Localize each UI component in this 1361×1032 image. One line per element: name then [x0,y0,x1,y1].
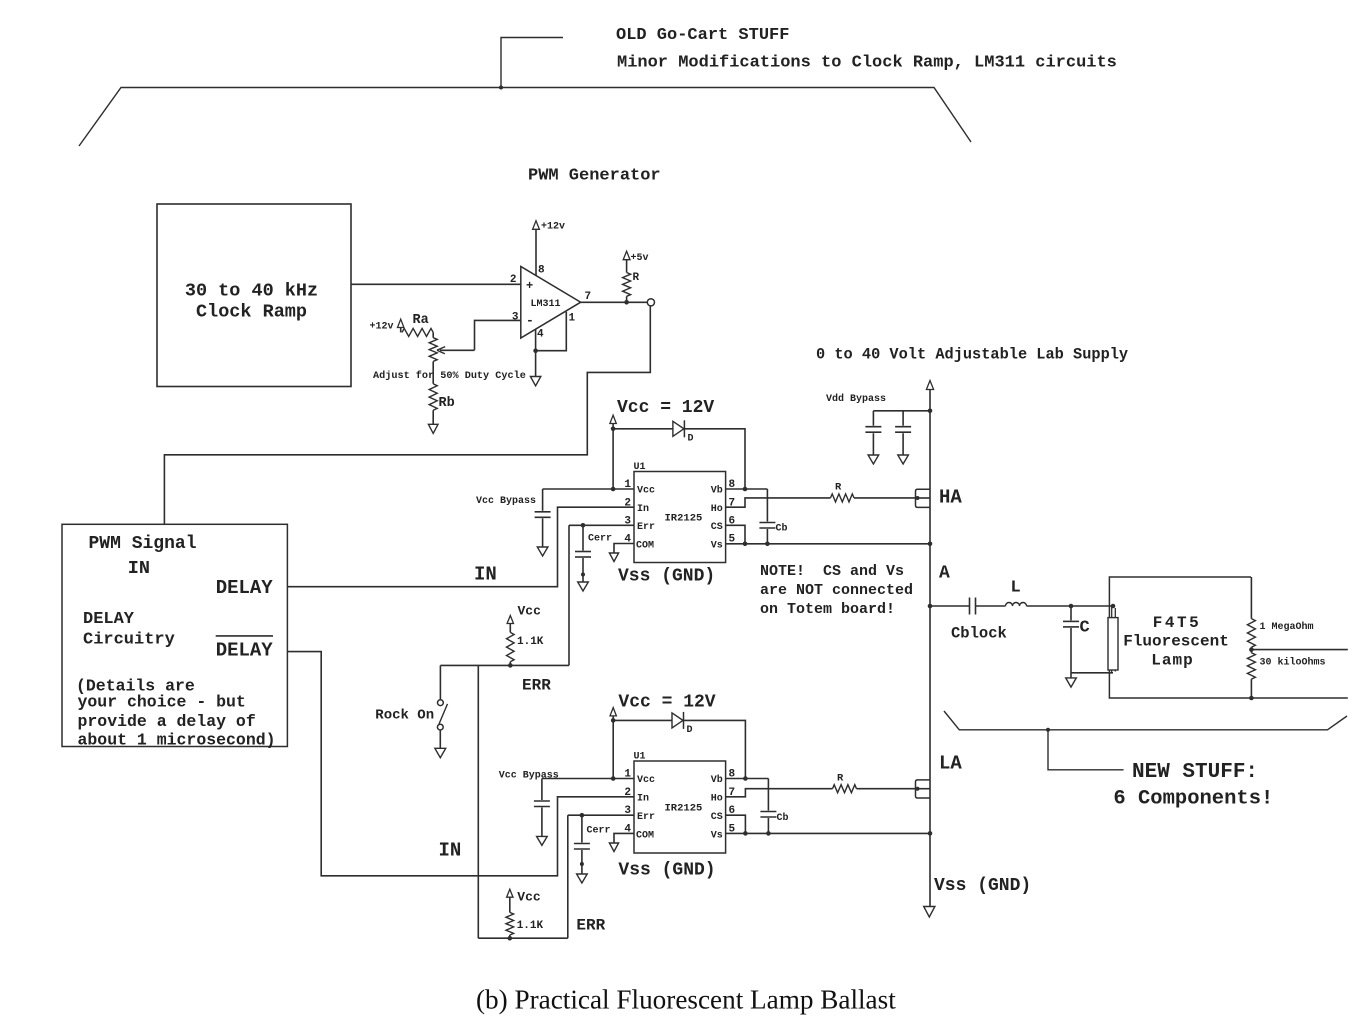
svg-text:Err: Err [637,522,655,533]
svg-text:DELAY: DELAY [216,577,274,599]
wire: Vdd rail [929,390,931,907]
svg-text:Lamp: Lamp [1151,652,1193,670]
inductor L [1006,579,1027,607]
svg-text:HA: HA [939,487,962,509]
svg-text:U1: U1 [634,752,646,763]
capacitor: Vcc bypass (lower) [499,771,559,837]
svg-text:Ho: Ho [711,504,723,515]
svg-text:OLD Go-Cart STUFF: OLD Go-Cart STUFF [616,26,789,45]
svg-text:-: - [526,313,534,328]
svg-text:LA: LA [939,753,962,775]
wire: Vcc rail down to pin 1 [611,429,616,492]
ground (lower Vcc bypass) [537,836,548,845]
svg-text:(b) Practical Fluorescent Lamp: (b) Practical Fluorescent Lamp Ballast [476,985,896,1015]
svg-text:CS: CS [711,522,723,533]
ground (upper COM) [609,553,618,562]
svg-text:+5v: +5v [631,253,649,264]
svg-text:In: In [637,504,649,515]
label: OLD Go-Cart STUFF [616,26,789,45]
switch: Rock On [375,700,447,749]
wire: wiper to LM311 pin 3 [475,320,521,350]
label: 0 to 40 Volt Adjustable Lab Supply [816,346,1128,364]
wire: lower ERR pin down [567,815,569,938]
pin numbers lower IC [624,769,735,836]
svg-text:Rock On: Rock On [375,708,434,724]
svg-text:In: In [637,794,649,805]
svg-text:IN: IN [474,564,497,586]
wire: upper Err pin left and down [568,525,570,665]
wire: LM311 pin 4 down [533,329,538,376]
svg-text:0 to 40 Volt Adjustable Lab Su: 0 to 40 Volt Adjustable Lab Supply [816,346,1128,364]
resistor R (pull-up) [623,260,640,303]
svg-text:2: 2 [624,497,631,509]
wire: Vcc arrow to diode anode (lower) [611,716,672,723]
svg-text:+: + [526,279,533,293]
power symbol +12v (Ra) [370,319,404,332]
wire: gate resistor to HA gate [854,497,916,499]
wire: pin 3 Err [569,523,634,528]
svg-text:Cb: Cb [776,523,788,535]
svg-text:U1: U1 [634,462,646,473]
capacitor: Vdd bypass 1 [865,411,881,455]
wire: Vdd bypass branch [873,409,932,414]
net label: ERR (upper) [522,677,551,695]
svg-text:30 kiloOhms: 30 kiloOhms [1260,657,1326,669]
svg-text:Minor Modifications to Clock R: Minor Modifications to Clock Ramp, LM311… [617,54,1117,73]
ground (Rock On switch) [435,748,446,757]
svg-text:CS: CS [711,812,723,823]
wire: gate resistor to LA gate [857,788,916,790]
svg-text:1 MegaOhm: 1 MegaOhm [1260,621,1314,633]
pin 2 label [510,274,517,286]
ground (Vdd bypass 2) [898,455,909,464]
ground (LM311 pin 4) [530,377,540,386]
diode D (lower bootstrap) [672,712,693,736]
ground (C) [1066,678,1077,687]
wire: lower ERR line [478,937,568,939]
capacitor: Vcc bypass (upper) [476,489,551,547]
wire: lamp bottom rail [1249,696,1348,701]
svg-text:Ho: Ho [711,794,723,805]
wire: pin 8 Vb to bootstrap cap (lower) [726,776,769,781]
svg-text:+12v: +12v [541,222,565,233]
svg-text:7: 7 [585,291,592,303]
pot wiper arrow [437,347,475,354]
svg-text:DELAY: DELAY [216,639,274,661]
net label: IN (upper) [474,564,497,586]
svg-text:Vss (GND): Vss (GND) [934,876,1031,896]
pin label: DELAY output [216,577,274,599]
wire: Cblock to L [976,605,1006,607]
capacitor C [1063,606,1090,678]
svg-text:Err: Err [637,812,655,823]
svg-text:1: 1 [569,313,576,325]
IC U1 IR2125 (lower) [634,752,726,854]
resistor Ra (pot top) [401,313,434,336]
resistor Rb [429,384,455,425]
ground (Vdd bypass 1) [868,455,879,464]
label: Vdd Bypass [826,393,886,405]
resistor 1 MegaOhm [1247,577,1313,650]
svg-text:PWM Signal: PWM Signal [89,534,197,554]
svg-text:IR2125: IR2125 [665,513,703,525]
transistor LA (low-side MOSFET) [916,780,931,798]
svg-text:are NOT connected: are NOT connected [760,582,913,599]
wire: DELAY to upper IR2125 IN (pin 2) [287,507,634,587]
svg-text:Vs: Vs [711,831,723,842]
net label: ERR (lower) [576,917,605,935]
svg-text:6 Components!: 6 Components! [1113,788,1273,811]
annotation bracket: OLD go-cart stuff [79,38,971,147]
ground (rail bottom) [924,907,935,918]
svg-text:1.1K: 1.1K [517,636,544,648]
label: Vss (GND) lower [618,861,715,881]
op-amp U2 LM311 comparator [521,267,581,339]
wire: pin 6 CS jog to Vs (lower) [726,815,746,833]
wire: ERR line to switch [439,665,441,699]
wire: pin 3 Err (lower) [568,813,634,818]
wire: ERR bus vertical joining both drivers [477,665,479,938]
svg-text:provide a delay of: provide a delay of [78,712,256,731]
capacitor Cblock [951,598,1007,643]
block: PWM Signal IN delay circuitry [62,524,287,749]
net label: IN (lower) [439,840,462,862]
ground (Rb) [428,424,438,433]
resistor R (upper gate) [831,482,855,502]
resistor 1.1K (upper) [507,624,544,668]
svg-text:Vcc = 12V: Vcc = 12V [617,398,714,418]
svg-text:L: L [1011,579,1021,598]
svg-text:about 1 microsecond): about 1 microsecond) [78,731,276,750]
ground (lower COM) [609,843,618,852]
wire: PWM output down-left to delay box [164,306,650,524]
svg-text:C: C [1080,619,1090,638]
svg-text:PWM Generator: PWM Generator [528,167,661,186]
svg-text:Cb: Cb [777,812,789,824]
label: PWM Generator [528,167,661,186]
capacitor Cerr (lower) [574,815,611,874]
svg-text:D: D [687,725,693,736]
resistor 30 kiloOhms [1247,650,1325,698]
svg-text:ERR: ERR [522,677,551,695]
wire: pin 5 Vs line to rail [726,542,933,547]
label: Adjust for 50% Duty Cycle [373,370,526,382]
power symbol Vcc (lower 1.1K) [507,889,541,904]
svg-text:Circuitry: Circuitry [83,631,175,650]
resistor R (lower gate) [833,773,857,793]
svg-text:R: R [837,773,844,785]
svg-text:3: 3 [512,312,519,324]
wire: Vcc rail down to pin 1 (lower) [611,720,616,780]
pin 7 label [585,291,592,303]
wire: pin 8 Vb to bootstrap cap [726,487,768,492]
wire: LM311 pin 1 to pin 4 [536,312,567,351]
label: LA [939,753,962,775]
diode D (upper bootstrap) [673,420,694,444]
svg-text:Vcc: Vcc [517,890,541,905]
node A junction [928,564,950,609]
svg-text:IN: IN [439,840,462,862]
svg-text:Vb: Vb [711,485,723,497]
svg-text:IN: IN [128,558,150,579]
svg-text:D: D [688,434,694,445]
svg-text:Vcc: Vcc [518,604,542,619]
svg-text:+12v: +12v [370,322,394,333]
wire: clock ramp to LM311 pin 2 [351,283,521,285]
svg-text:2: 2 [510,274,517,286]
wire: LM311 output pin 7 [581,300,648,305]
resistor: pot lower section [429,332,437,383]
ground (upper Cerr) [578,582,589,591]
svg-text:on Totem board!: on Totem board! [760,601,895,618]
label: Vcc = 12V (lower) [618,693,715,713]
wire: resistor divider tap [1249,647,1348,652]
pin label: DELAY-bar output (overline) [216,636,274,661]
power symbol +12v (LM311 pin 8) [533,221,565,233]
svg-text:Adjust for 50% Duty Cycle: Adjust for 50% Duty Cycle [373,370,526,382]
svg-text:Vcc Bypass: Vcc Bypass [499,771,559,782]
lamp electrode [1108,606,1118,673]
svg-text:Vcc Bypass: Vcc Bypass [476,496,536,507]
wire: pin 5 Vs line to rail (lower) [726,831,933,836]
svg-text:R: R [835,482,842,494]
IC U1 IR2125 (upper) [634,462,726,563]
wire: L to lamp [1027,604,1116,609]
resistor 1.1K (lower) [506,897,544,940]
pin 1 label [569,313,576,325]
wire: pin 4 COM to ground (lower) [614,833,634,843]
svg-text:Vss (GND): Vss (GND) [618,861,715,881]
terminal: open circle at PWM output [647,299,654,306]
pin numbers upper IC [624,479,735,546]
svg-text:LM311: LM311 [531,299,561,310]
wire: DELAY-bar to lower IR2125 IN (pin 2) [287,652,634,876]
block: 30 to 40 kHz Clock Ramp [157,204,351,387]
svg-text:DELAY: DELAY [83,610,135,629]
svg-text:4: 4 [537,329,544,341]
svg-text:Vcc: Vcc [637,486,655,497]
ground (lower Cerr) [577,874,588,883]
svg-text:Ra: Ra [413,313,429,328]
capacitor Cb (upper) [759,489,787,544]
wire: LM311 pin 8 to +12v [535,229,537,276]
wire: Vcc arrow to diode anode [611,424,673,432]
svg-text:Rb: Rb [439,396,455,411]
svg-text:Vdd Bypass: Vdd Bypass [826,393,886,405]
label: Minor Modifications to Clock Ramp, LM311 circuits [617,54,1117,73]
wire: node A to Cblock [930,605,970,607]
label: Vss (GND) rail bottom [934,876,1031,896]
svg-text:Cerr: Cerr [587,826,611,837]
wire: upper ERR line [440,664,569,666]
annotation bracket: NEW STUFF [944,711,1347,770]
wire: lamp bottom electrode to ground node [1071,672,1113,674]
wire: diode cathode to Vb pin 8 [684,429,745,489]
svg-text:your choice - but: your choice - but [78,693,246,712]
svg-text:Clock Ramp: Clock Ramp [196,302,307,323]
svg-text:NOTE! CS and Vs: NOTE! CS and Vs [760,563,904,580]
power symbol Vcc (lower driver) [610,708,616,716]
svg-text:Cerr: Cerr [588,534,612,545]
power symbol Vcc (upper driver) [610,415,616,423]
svg-text:Cblock: Cblock [951,625,1007,643]
capacitor: Vdd bypass 2 [895,411,911,455]
svg-text:F4T5: F4T5 [1153,614,1201,632]
wire: pin 4 COM to ground [614,544,634,554]
svg-text:A: A [939,564,950,584]
capacitor Cb (lower) [760,779,788,834]
capacitor Cerr (upper) [575,525,612,582]
svg-text:Vs: Vs [711,541,723,552]
ground (upper Vcc bypass) [537,547,548,556]
pin 3 label [512,312,519,324]
block: F4T5 fluorescent lamp [1109,577,1251,698]
wire: diode cathode to Vb pin 8 (lower) [684,720,746,778]
label: NEW STUFF: 6 Components! [1113,761,1273,811]
svg-text:ERR: ERR [576,917,605,935]
svg-text:Vb: Vb [711,774,723,786]
wire: pin 7 Ho to gate resistor [726,498,831,507]
svg-text:Fluorescent: Fluorescent [1123,633,1229,651]
svg-text:Vss (GND): Vss (GND) [618,567,715,587]
power arrow: lab supply rail top [926,381,933,390]
svg-text:1.1K: 1.1K [517,920,544,932]
svg-text:R: R [633,272,640,284]
svg-text:30 to 40 kHz: 30 to 40 kHz [185,281,318,302]
label: Vss (GND) upper [618,567,715,587]
svg-text:COM: COM [636,541,654,552]
power symbol +5v [623,251,648,264]
wire: pin 1 Vcc (lower) [542,778,634,780]
svg-text:COM: COM [636,831,654,842]
wire: pin 1 Vcc [543,488,634,490]
wire: pin 7 Ho to gate resistor (lower) [726,789,833,797]
svg-text:IR2125: IR2125 [665,803,703,815]
pin 8 label [538,265,545,277]
svg-text:NEW STUFF:: NEW STUFF: [1132,761,1258,784]
label: Vcc = 12V (upper) [617,398,714,418]
svg-text:Vcc = 12V: Vcc = 12V [618,693,715,713]
transistor HA (high-side MOSFET) [916,489,931,507]
wire: pin 6 CS jog to Vs [726,525,745,544]
caption: (b) Practical Fluorescent Lamp Ballast [476,985,896,1015]
svg-text:Vcc: Vcc [637,775,655,786]
pin 4 label [537,329,544,341]
power symbol Vcc (upper 1.1K) [507,604,541,624]
note text: CS and Vs not connected [760,563,913,618]
label: HA [939,487,962,509]
svg-text:8: 8 [538,265,545,277]
svg-text:2: 2 [624,787,631,799]
